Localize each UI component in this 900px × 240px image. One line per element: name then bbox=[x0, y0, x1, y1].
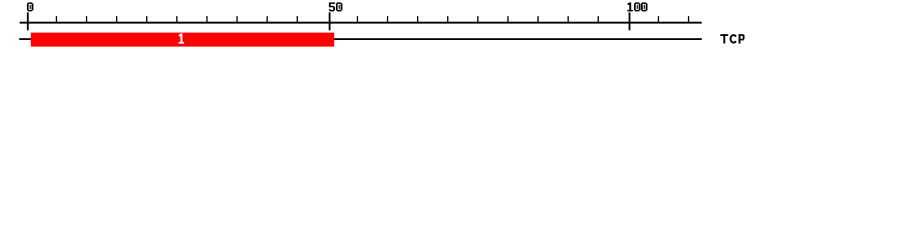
label 50 bbox=[329, 2, 343, 11]
major tick 50 bbox=[329, 12, 331, 30]
label TCP letter T bbox=[720, 34, 728, 43]
segment bar label 1 bbox=[179, 34, 185, 44]
minor ticks bbox=[56, 16, 689, 23]
flow line bbox=[19, 38, 702, 40]
major tick 100 bbox=[629, 12, 631, 30]
label TCP letter P bbox=[739, 34, 745, 43]
label 0 bbox=[27, 2, 34, 11]
segment bar 1 bbox=[31, 33, 334, 47]
label TCP letter C bbox=[731, 35, 736, 43]
ruler baseline bbox=[20, 22, 702, 24]
label 100 bbox=[627, 2, 647, 11]
major tick 0 bbox=[27, 12, 29, 30]
